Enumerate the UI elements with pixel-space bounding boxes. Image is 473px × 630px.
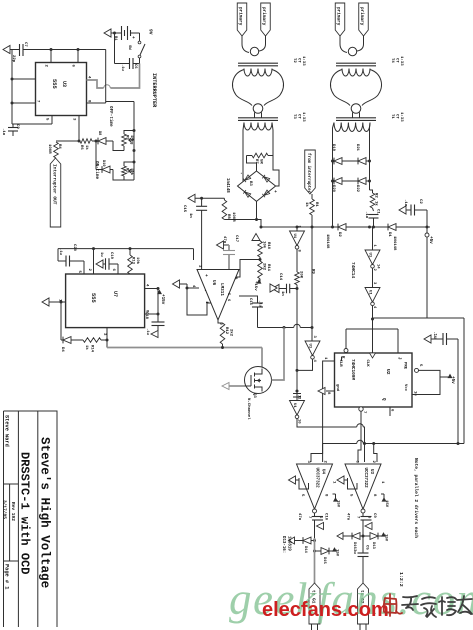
inverter U1d xyxy=(372,227,374,250)
ground xyxy=(399,206,406,214)
potentiometer R5 1Meg OFF-time xyxy=(122,134,127,146)
svg-text:74HC109M: 74HC109M xyxy=(350,359,355,380)
svg-text:1u: 1u xyxy=(99,252,103,257)
flag to G2 xyxy=(358,583,369,624)
svg-text:D14: D14 xyxy=(303,546,307,554)
svg-text:R10: R10 xyxy=(266,242,270,250)
wire pin3 U7 output xyxy=(106,328,108,348)
wire primary loop xyxy=(242,36,249,53)
capacitor C18 .1u xyxy=(152,321,165,323)
diode D22 xyxy=(357,178,359,185)
wire U1b out xyxy=(297,359,313,370)
svg-text:1n: 1n xyxy=(280,291,284,296)
resistor R7 5R xyxy=(252,153,268,158)
svg-text:74HC14: 74HC14 xyxy=(350,262,356,279)
diode D2 xyxy=(337,224,339,231)
svg-text:5R: 5R xyxy=(259,159,263,164)
transformer T4 core xyxy=(336,62,376,64)
svg-text:elecfans.com: elecfans.com xyxy=(262,599,389,621)
svg-text:+: + xyxy=(130,36,135,39)
svg-text:+5v: +5v xyxy=(428,236,433,244)
wire to U3 driver inputs xyxy=(364,444,366,463)
svg-text:10k: 10k xyxy=(262,241,267,249)
wire T3 left lead xyxy=(238,123,244,188)
svg-text:.1u: .1u xyxy=(58,248,62,256)
capacitor C14 1n xyxy=(272,284,279,292)
svg-text:.1u: .1u xyxy=(145,328,149,336)
svg-text:+5v: +5v xyxy=(450,376,455,384)
svg-text:.1u: .1u xyxy=(364,211,368,219)
svg-text:UCC37322: UCC37322 xyxy=(363,468,367,489)
svg-text:T3: T3 xyxy=(292,114,296,119)
resistor R13 10k xyxy=(129,249,131,255)
svg-text:C9: C9 xyxy=(372,513,376,518)
resistor R1 1k xyxy=(311,194,313,199)
svg-text:15V: 15V xyxy=(336,500,340,508)
svg-text:U6: U6 xyxy=(211,280,216,286)
flag primary T2 left xyxy=(237,3,247,36)
capacitor C10 47u xyxy=(314,513,316,517)
wire T1 left rail xyxy=(333,123,335,228)
svg-text:SW: SW xyxy=(127,45,131,50)
svg-text:from interrupter: from interrupter xyxy=(306,153,311,194)
svg-text:C19: C19 xyxy=(109,252,113,260)
svg-text:R12: R12 xyxy=(224,327,228,335)
svg-text:15V: 15V xyxy=(384,534,388,542)
wire U1c out xyxy=(297,419,357,427)
wire 20K net down xyxy=(296,289,298,401)
watermark chinese characters xyxy=(384,594,402,616)
wire to R5 branch xyxy=(113,141,124,151)
node +5v xyxy=(426,210,428,318)
svg-text:primary: primary xyxy=(336,7,341,26)
svg-text:U1: U1 xyxy=(292,234,296,239)
svg-text:100R: 100R xyxy=(47,144,51,154)
bridge rectifier B3 xyxy=(238,171,276,201)
wire U3 feedback loop xyxy=(348,478,358,489)
svg-text:1n5819: 1n5819 xyxy=(287,536,291,551)
svg-text:U1: U1 xyxy=(307,344,311,349)
wire pin6 rail to pots xyxy=(78,49,106,51)
svg-text:3/17/05: 3/17/05 xyxy=(2,500,8,519)
svg-text:16: 16 xyxy=(413,391,417,396)
svg-text:47u: 47u xyxy=(297,513,301,521)
wire T1 right rail xyxy=(369,123,372,191)
svg-text:primary: primary xyxy=(238,7,243,26)
resistor R6 1k xyxy=(80,139,92,144)
node +15v xyxy=(259,279,261,283)
resistor R10 10k xyxy=(252,234,260,241)
svg-text:C17: C17 xyxy=(234,235,238,243)
svg-text:Interrupter OUT: Interrupter OUT xyxy=(51,164,57,205)
svg-text:C18: C18 xyxy=(144,312,148,320)
svg-text:R2: R2 xyxy=(374,193,378,198)
flag Interrupter OUT xyxy=(50,158,61,227)
svg-text:D13-16:: D13-16: xyxy=(281,536,285,553)
svg-text:47u: 47u xyxy=(222,236,226,244)
wire U6 output to R12 xyxy=(218,320,223,323)
capacitor C20 .1u xyxy=(58,260,66,262)
diode D13 xyxy=(363,535,370,537)
inverter U1e xyxy=(372,268,374,287)
svg-text:CLK: CLK xyxy=(365,360,369,368)
transformer T3 core xyxy=(238,117,278,119)
svg-text:+: + xyxy=(272,190,277,193)
svg-text:10k: 10k xyxy=(135,257,140,265)
svg-text:R6: R6 xyxy=(79,145,83,150)
svg-text:D19: D19 xyxy=(331,144,335,152)
svg-text:T1: T1 xyxy=(390,114,394,119)
ground xyxy=(151,331,158,338)
svg-text:1k: 1k xyxy=(84,145,89,150)
resistor R14 1k xyxy=(71,339,83,341)
svg-text:3u: 3u xyxy=(352,549,356,554)
diode D15 xyxy=(315,550,322,552)
svg-text:Vcc: Vcc xyxy=(403,384,407,392)
wire Q3 gate left xyxy=(229,385,245,387)
svg-text:+: + xyxy=(203,274,208,277)
switch SW xyxy=(138,41,141,44)
transformer T3 secondary winding xyxy=(244,123,272,131)
svg-text:C2: C2 xyxy=(418,199,422,204)
wire PRE/Vcc to +5v xyxy=(412,370,440,394)
svg-text:C5: C5 xyxy=(365,545,369,550)
svg-text:C9: C9 xyxy=(15,124,19,129)
svg-text:11: 11 xyxy=(297,395,301,400)
flag primary T4 right xyxy=(359,3,369,36)
op-amp U6 LM311 xyxy=(197,270,239,321)
wire gnd pin xyxy=(326,390,335,392)
transformer T2 core xyxy=(238,62,278,64)
svg-text:D13: D13 xyxy=(371,542,375,550)
diode D20 xyxy=(333,180,335,182)
svg-text:10k: 10k xyxy=(129,168,134,176)
resistor R8 100R xyxy=(222,200,227,220)
svg-text:D22: D22 xyxy=(355,185,359,193)
wire bridge bottom to rail xyxy=(224,201,256,219)
diode D1 xyxy=(387,224,389,231)
IC U3 UCC37322 driver xyxy=(345,464,381,509)
ground xyxy=(96,260,103,268)
IC U7 555 timer xyxy=(66,274,145,328)
svg-text:47u: 47u xyxy=(346,513,350,521)
capacitor C5 3u xyxy=(362,536,364,553)
resistor R9 20K xyxy=(296,249,298,272)
svg-text:2k2: 2k2 xyxy=(229,329,234,337)
svg-text:1k: 1k xyxy=(84,345,89,350)
svg-text:U3: U3 xyxy=(369,469,373,475)
svg-text:T4: T4 xyxy=(390,58,394,63)
svg-text:1n4148: 1n4148 xyxy=(225,178,229,193)
ground xyxy=(270,284,277,292)
svg-text:D21: D21 xyxy=(355,144,359,152)
IC U2 74HC109M xyxy=(335,353,413,407)
svg-text:-: - xyxy=(238,172,243,175)
wire Qbar down xyxy=(360,411,362,427)
svg-text:1:33: 1:33 xyxy=(301,112,305,122)
flag primary T2 right xyxy=(261,3,271,36)
capacitor C17 47u xyxy=(217,241,224,249)
wire primary loop xyxy=(340,36,347,53)
svg-text:Q3: Q3 xyxy=(252,393,256,398)
svg-text:R5: R5 xyxy=(125,135,129,140)
svg-text:Steve Ward: Steve Ward xyxy=(4,415,10,447)
wire divider tap xyxy=(236,260,260,278)
svg-text:C1: C1 xyxy=(376,209,380,214)
svg-text:1N4148: 1N4148 xyxy=(325,234,329,249)
wire main row xyxy=(261,226,430,228)
transformer T1 secondary winding xyxy=(334,123,370,132)
svg-text:U7: U7 xyxy=(112,291,118,297)
transistor Q3 N-Channel xyxy=(245,367,272,394)
capacitor C9 47u xyxy=(362,513,364,517)
svg-text:+15v: +15v xyxy=(160,294,165,305)
resistor R2 1k xyxy=(370,190,373,193)
diode D4 xyxy=(61,339,63,341)
flag from interrupter xyxy=(305,150,316,194)
svg-text:.1u: .1u xyxy=(403,199,407,207)
wire Q3 drain right xyxy=(272,328,285,381)
svg-text:1Meg: 1Meg xyxy=(129,135,133,145)
svg-text:1k: 1k xyxy=(374,201,379,206)
svg-text:.1u: .1u xyxy=(432,331,436,339)
diode D10 xyxy=(96,169,102,171)
svg-text:C7: C7 xyxy=(23,42,27,47)
inverter U1a xyxy=(296,227,298,231)
ground xyxy=(289,476,296,484)
svg-text:-: - xyxy=(202,289,207,292)
title block frame xyxy=(4,411,58,627)
wire R1 net down xyxy=(311,227,313,341)
IC U3 555 timer xyxy=(36,63,87,116)
svg-text:ON-time: ON-time xyxy=(94,161,99,179)
svg-text:+15v: +15v xyxy=(253,281,257,291)
capacitor U2 bypass .1u xyxy=(424,335,431,343)
svg-text:C20: C20 xyxy=(72,244,76,252)
svg-text:C14: C14 xyxy=(278,273,282,281)
svg-text:R14: R14 xyxy=(90,345,94,353)
svg-text:D4: D4 xyxy=(60,347,64,352)
svg-text:100R: 100R xyxy=(231,212,235,222)
svg-text:U2: U2 xyxy=(385,369,391,375)
ground xyxy=(42,298,49,306)
svg-text:U1: U1 xyxy=(367,253,371,258)
wire U4 feedback loop xyxy=(299,478,309,489)
ground xyxy=(337,476,344,484)
capacitor C1 .1u xyxy=(373,208,374,211)
svg-text:Steve's High Voltage: Steve's High Voltage xyxy=(38,437,52,588)
wire switch to C6 xyxy=(139,58,141,64)
svg-text:R1: R1 xyxy=(314,202,318,207)
wire clock net xyxy=(372,306,374,353)
capacitor C16 .1u xyxy=(239,296,258,303)
svg-text:UCC37322: UCC37322 xyxy=(315,468,319,489)
svg-text:.1u: .1u xyxy=(258,300,262,308)
svg-text:D1: D1 xyxy=(387,232,391,237)
wire T3 right lead xyxy=(272,123,273,156)
wire left rail xyxy=(11,50,13,125)
svg-text:1n: 1n xyxy=(188,213,192,218)
svg-text:primary: primary xyxy=(261,7,266,26)
wire fat single-turn loop xyxy=(233,70,252,106)
capacitor C19 1u xyxy=(105,258,107,270)
svg-text:D10: D10 xyxy=(101,160,105,166)
wire C6 left to gnd rail xyxy=(114,33,116,64)
wire driver input bus xyxy=(323,443,357,445)
svg-text:PRE: PRE xyxy=(403,362,407,370)
svg-text:9V: 9V xyxy=(148,29,154,35)
diode D19 xyxy=(333,160,335,162)
resistor R4 100R xyxy=(56,140,79,142)
ground xyxy=(188,194,195,202)
svg-text:INTERRUPTER: INTERRUPTER xyxy=(151,73,157,108)
capacitor C2 .1u xyxy=(410,205,412,216)
wire to U4 inputs xyxy=(311,444,323,463)
flag primary T4 left xyxy=(335,3,345,36)
flag to G1 xyxy=(309,583,320,624)
node 15V xyxy=(381,493,384,495)
diode D21 xyxy=(357,158,359,165)
svg-text:C6: C6 xyxy=(133,64,137,69)
svg-text:CT: CT xyxy=(297,58,301,63)
transformer T4 secondary winding xyxy=(342,69,370,77)
wire +15v rail xyxy=(145,288,158,290)
svg-text:D20: D20 xyxy=(331,185,335,193)
inverter U1c xyxy=(290,401,305,416)
svg-text:D8: D8 xyxy=(97,131,101,135)
transformer T1 core xyxy=(336,117,376,119)
wire Q pin stub xyxy=(389,407,391,416)
capacitor C7 xyxy=(19,44,21,56)
svg-text:CT: CT xyxy=(297,114,301,119)
wire bridge right to T3 xyxy=(273,156,279,187)
svg-text:C16: C16 xyxy=(248,298,252,306)
svg-text:U1: U1 xyxy=(292,403,296,408)
ground xyxy=(317,523,324,530)
resistor R12 2k2 xyxy=(220,323,225,344)
svg-text:1k: 1k xyxy=(304,202,309,207)
svg-text:CT: CT xyxy=(395,114,399,119)
svg-text:Rev 192: Rev 192 xyxy=(10,502,16,521)
svg-text:1:33: 1:33 xyxy=(399,112,403,122)
wire +5v loop right xyxy=(457,339,459,444)
wire OCD feedback xyxy=(258,327,294,329)
svg-text:.1u: .1u xyxy=(1,128,5,136)
svg-text:R4: R4 xyxy=(57,144,61,149)
svg-text:B3: B3 xyxy=(248,181,252,186)
svg-text:Note, parallel 2 drivers each: Note, parallel 2 drivers each xyxy=(413,458,419,538)
battery B1 xyxy=(104,29,111,37)
wire K/J row xyxy=(346,328,398,330)
svg-text:555: 555 xyxy=(90,293,96,303)
svg-text:2K2: 2K2 xyxy=(262,263,266,271)
svg-text:15V: 15V xyxy=(335,549,339,557)
capacitor C9 xyxy=(12,124,14,128)
ground xyxy=(3,45,10,53)
wire U4 output xyxy=(314,538,316,583)
diode D14 xyxy=(289,537,295,544)
svg-text:R13: R13 xyxy=(131,257,135,265)
ground xyxy=(173,280,180,288)
svg-text:R11: R11 xyxy=(266,264,270,272)
svg-text:U4: U4 xyxy=(321,469,325,475)
svg-text:D2: D2 xyxy=(337,232,341,237)
wire top rail U7 xyxy=(58,248,194,250)
svg-text:C15: C15 xyxy=(182,205,186,213)
wire CLR to left net xyxy=(323,361,335,444)
diode D16 xyxy=(337,533,343,540)
svg-text:1N4148: 1N4148 xyxy=(392,236,396,251)
IC U4 UCC37322 driver xyxy=(297,464,333,509)
capacitor C15 1n xyxy=(201,198,203,206)
svg-text:R8: R8 xyxy=(226,214,230,219)
wire U6 feedback loop xyxy=(187,284,211,315)
wire pin4 to switch net xyxy=(87,80,104,88)
wire pot rail xyxy=(133,102,135,181)
svg-text:U1: U1 xyxy=(367,290,371,295)
svg-text:.1u: .1u xyxy=(120,64,124,72)
svg-text:14: 14 xyxy=(376,264,380,269)
wire pin3 down xyxy=(78,116,80,142)
wire pin2/6 rail xyxy=(23,49,106,51)
wire D4 branch xyxy=(60,302,62,340)
wire R7 to bridge top xyxy=(247,156,257,172)
svg-text:LM311: LM311 xyxy=(219,283,224,296)
ground xyxy=(365,523,372,530)
svg-text:U3: U3 xyxy=(61,81,67,87)
svg-text:1:33: 1:33 xyxy=(301,56,305,66)
wire battery to switch xyxy=(131,32,140,34)
svg-text:D15: D15 xyxy=(322,557,326,565)
svg-text:primary: primary xyxy=(359,7,364,26)
svg-text:555: 555 xyxy=(51,79,57,89)
svg-text:DRSSTC-1 with OCD: DRSSTC-1 with OCD xyxy=(18,452,32,574)
svg-text:OFF-time: OFF-time xyxy=(108,106,113,127)
inverter U1b xyxy=(305,341,320,356)
svg-text:gnd: gnd xyxy=(335,384,340,392)
potentiometer R3 10k ON-time xyxy=(122,166,127,176)
svg-text:C10: C10 xyxy=(324,513,328,521)
svg-text:20K: 20K xyxy=(299,271,303,279)
svg-text:CLR: CLR xyxy=(338,360,342,368)
node 15V xyxy=(333,493,336,495)
svg-text:T2: T2 xyxy=(292,58,296,63)
diode D8 xyxy=(97,138,99,145)
svg-text:N-Channel: N-Channel xyxy=(246,398,251,420)
transformer T2 secondary winding xyxy=(244,69,272,77)
svg-text:Page # 1: Page # 1 xyxy=(4,564,10,589)
svg-text:R3: R3 xyxy=(125,168,129,173)
capacitor C6 xyxy=(129,58,131,69)
svg-text:CT: CT xyxy=(395,58,399,63)
svg-text:1:33: 1:33 xyxy=(399,56,403,66)
wire to Q3 gate xyxy=(261,348,263,368)
wire fat single-turn loop xyxy=(331,70,350,106)
svg-text:15V: 15V xyxy=(384,500,388,508)
resistor R11 2k2 xyxy=(259,258,262,261)
wire D10 branch xyxy=(95,141,97,170)
